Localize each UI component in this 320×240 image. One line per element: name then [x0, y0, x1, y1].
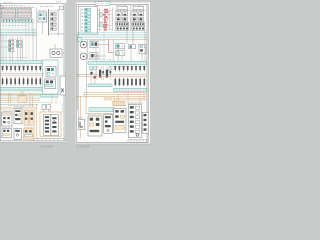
orange bus I [0, 74, 44, 76]
terminal strip I-bottom [0, 87, 42, 90]
pump unit L1 [2, 112, 13, 126]
label P2 [132, 5, 143, 7]
teal drop M4 [62, 104, 64, 112]
lower unit L5 [14, 129, 22, 140]
sensor pair S1 [116, 44, 125, 49]
tank outline M1 [40, 112, 61, 137]
power transistors T1 [97, 66, 111, 81]
wire below E [41, 22, 43, 34]
feeder wires below gearboxes [96, 41, 111, 61]
speck r4 [128, 102, 143, 104]
speck r2 [88, 58, 111, 60]
margin label [56, 1, 61, 3]
speck l6 [24, 126, 35, 128]
label P1 [116, 5, 127, 7]
wire row divider 2 [0, 17, 32, 19]
teal strip under J [41, 94, 59, 97]
teal bus 3 [0, 32, 37, 34]
ecm box B-right [17, 8, 31, 18]
orange line Q2 [77, 38, 147, 40]
pump circle R1 [80, 41, 87, 48]
lower unit L6 [24, 129, 35, 140]
red feeder R [109, 39, 113, 52]
valve bank P2 [131, 7, 145, 31]
cylinder column M2 [44, 115, 51, 136]
title strip ticks left page [34, 138, 64, 141]
speck r3 [116, 104, 126, 106]
assembly X6 [142, 113, 148, 134]
wire trunk F [48, 9, 50, 36]
teal line under strip [0, 90, 44, 92]
label X2 [88, 113, 102, 115]
wire O-right [111, 8, 113, 32]
sensor pair S2 [116, 51, 125, 56]
relay bar row I-2 [2, 77, 41, 85]
teal connector pair T6 [90, 67, 93, 70]
teal/green harness K lines [0, 97, 56, 102]
gearbox R4 [90, 53, 98, 59]
wires below valve group G [10, 39, 23, 61]
cylinder column M3 [51, 115, 58, 136]
wires between boxes and sensor row [3, 18, 29, 19]
teal bus 1 [0, 28, 37, 30]
orange bus T4 [77, 75, 147, 77]
red cable bundle O [103, 9, 108, 31]
speck r1 [90, 40, 105, 42]
teal bus band Q [77, 33, 147, 38]
orange risers U3 [77, 93, 86, 138]
wire drops S [118, 49, 131, 61]
ecm box B-left [2, 8, 16, 18]
bus T3 [77, 73, 147, 75]
pump unit L2 [14, 109, 22, 124]
speck l2 [1, 46, 9, 48]
filter bank L3 [24, 111, 34, 126]
orange harness V [114, 96, 146, 100]
speck l5 [3, 110, 13, 112]
label X5 [128, 102, 143, 104]
teal bus 2 [0, 30, 37, 32]
tiny terminal ticks row A2 [2, 6, 30, 8]
cluster feed wires [10, 36, 20, 40]
valve group G column 1 [9, 40, 14, 51]
wire row divider [0, 13, 32, 15]
speck l4 [8, 104, 33, 106]
assembly X2 [88, 116, 102, 136]
label L4 [2, 126, 13, 128]
orange trunk M [36, 104, 38, 140]
wire H up [54, 44, 56, 49]
bank internal wires [117, 10, 143, 23]
wire to border [49, 33, 64, 35]
wire top bus [0, 6, 34, 8]
divider wire between banks [129, 4, 131, 32]
relay bar row T5 [115, 78, 146, 87]
speck top margin [4, 2, 12, 4]
lower unit L4 [2, 129, 12, 138]
left schematic page sheet [0, 0, 67, 142]
micro labels T [115, 64, 137, 66]
wires dropping from sensor row [3, 22, 32, 28]
wire inside N [80, 8, 82, 32]
diode row T2 [114, 65, 146, 71]
junction box E1 [38, 12, 47, 22]
bracket X1 [78, 120, 84, 130]
connector block A1 [0, 6, 3, 9]
module column F (4 relays) [51, 12, 56, 30]
legend box above border [95, 2, 110, 6]
sheet border frame (right page) [76, 4, 148, 142]
title strip ticks right page [128, 140, 147, 143]
tan bits in U [104, 98, 107, 100]
micro labels mid [2, 25, 27, 27]
motor block H [50, 49, 62, 57]
orange harness bundle K [0, 93, 40, 100]
assembly X3 [104, 115, 113, 134]
label G [9, 38, 19, 40]
note box J3 [60, 76, 65, 95]
wire H to border [62, 52, 64, 54]
teal tag on border [78, 38, 82, 42]
terminal row B3 with red pins [2, 15, 31, 17]
module J4 [45, 79, 56, 89]
orange risers [9, 91, 23, 103]
wire trunk F2 [57, 9, 59, 36]
extra red drops T7 [91, 66, 107, 85]
teal icon column N [82, 8, 91, 32]
gearbox R3 [90, 41, 98, 47]
tan feeder lines L [0, 107, 36, 109]
wires N to O [98, 11, 113, 30]
io module N [78, 6, 97, 34]
small boxes above tank M0 [42, 105, 46, 110]
sensor strip C (teal) [2, 19, 33, 22]
assembly X4 [114, 109, 126, 133]
speck r5 [104, 113, 111, 115]
fuse strip B1 [2, 10, 15, 13]
small dark marks T8 [102, 71, 104, 73]
tan terminal row V2 [113, 101, 126, 105]
label L2 [14, 106, 24, 108]
svg-text:1-13 4/13: 1-13 4/13 [40, 145, 53, 149]
teal enclosure J [42, 60, 58, 94]
black bus 5 [0, 35, 37, 37]
long vertical wires left page [2, 7, 36, 60]
orange junction box K1 [18, 96, 26, 102]
bus under row I-1 [0, 73, 44, 75]
label F [50, 10, 58, 12]
pump circle R2 [80, 53, 87, 60]
teal aux O [100, 12, 103, 16]
terminal strip I-top [0, 61, 42, 64]
harness drops K [30, 93, 56, 112]
terminal strip T-top [88, 61, 147, 64]
speck l3 [2, 57, 27, 59]
svg-text:2-14 5/14: 2-14 5/14 [77, 145, 90, 149]
terminal strip T-left-bottom [88, 84, 112, 87]
micro labels band [2, 64, 30, 66]
module J2 [46, 67, 56, 78]
terminal strip U2 [89, 108, 113, 112]
orange feed lines over U [84, 93, 146, 95]
sensor S3 [129, 45, 136, 49]
thin wire K2 [0, 104, 38, 106]
aux box S4 [139, 44, 146, 54]
valve group G column 2 [17, 40, 22, 47]
label E1 [39, 10, 47, 12]
terminal strip T-bottom [114, 88, 147, 91]
solenoid row I-1 [1, 65, 41, 71]
orange drops V [118, 93, 144, 105]
wire O-left [98, 8, 100, 32]
right schematic page sheet [76, 2, 150, 143]
black bus 4 [0, 33, 37, 35]
tan enclosure U [86, 97, 114, 114]
speck l1 [1, 40, 8, 42]
sheet border frame (left page) [0, 4, 65, 141]
speck r6 [78, 117, 83, 119]
top labels right section [40, 5, 53, 7]
valve bank P1 [115, 7, 129, 31]
small parts T8b [90, 72, 92, 75]
long wires right page [77, 30, 145, 119]
fuse strip B2 [17, 10, 30, 13]
assembly X5 (tall) [128, 105, 141, 138]
micro labels top [5, 4, 23, 6]
tag box near border [60, 6, 64, 9]
